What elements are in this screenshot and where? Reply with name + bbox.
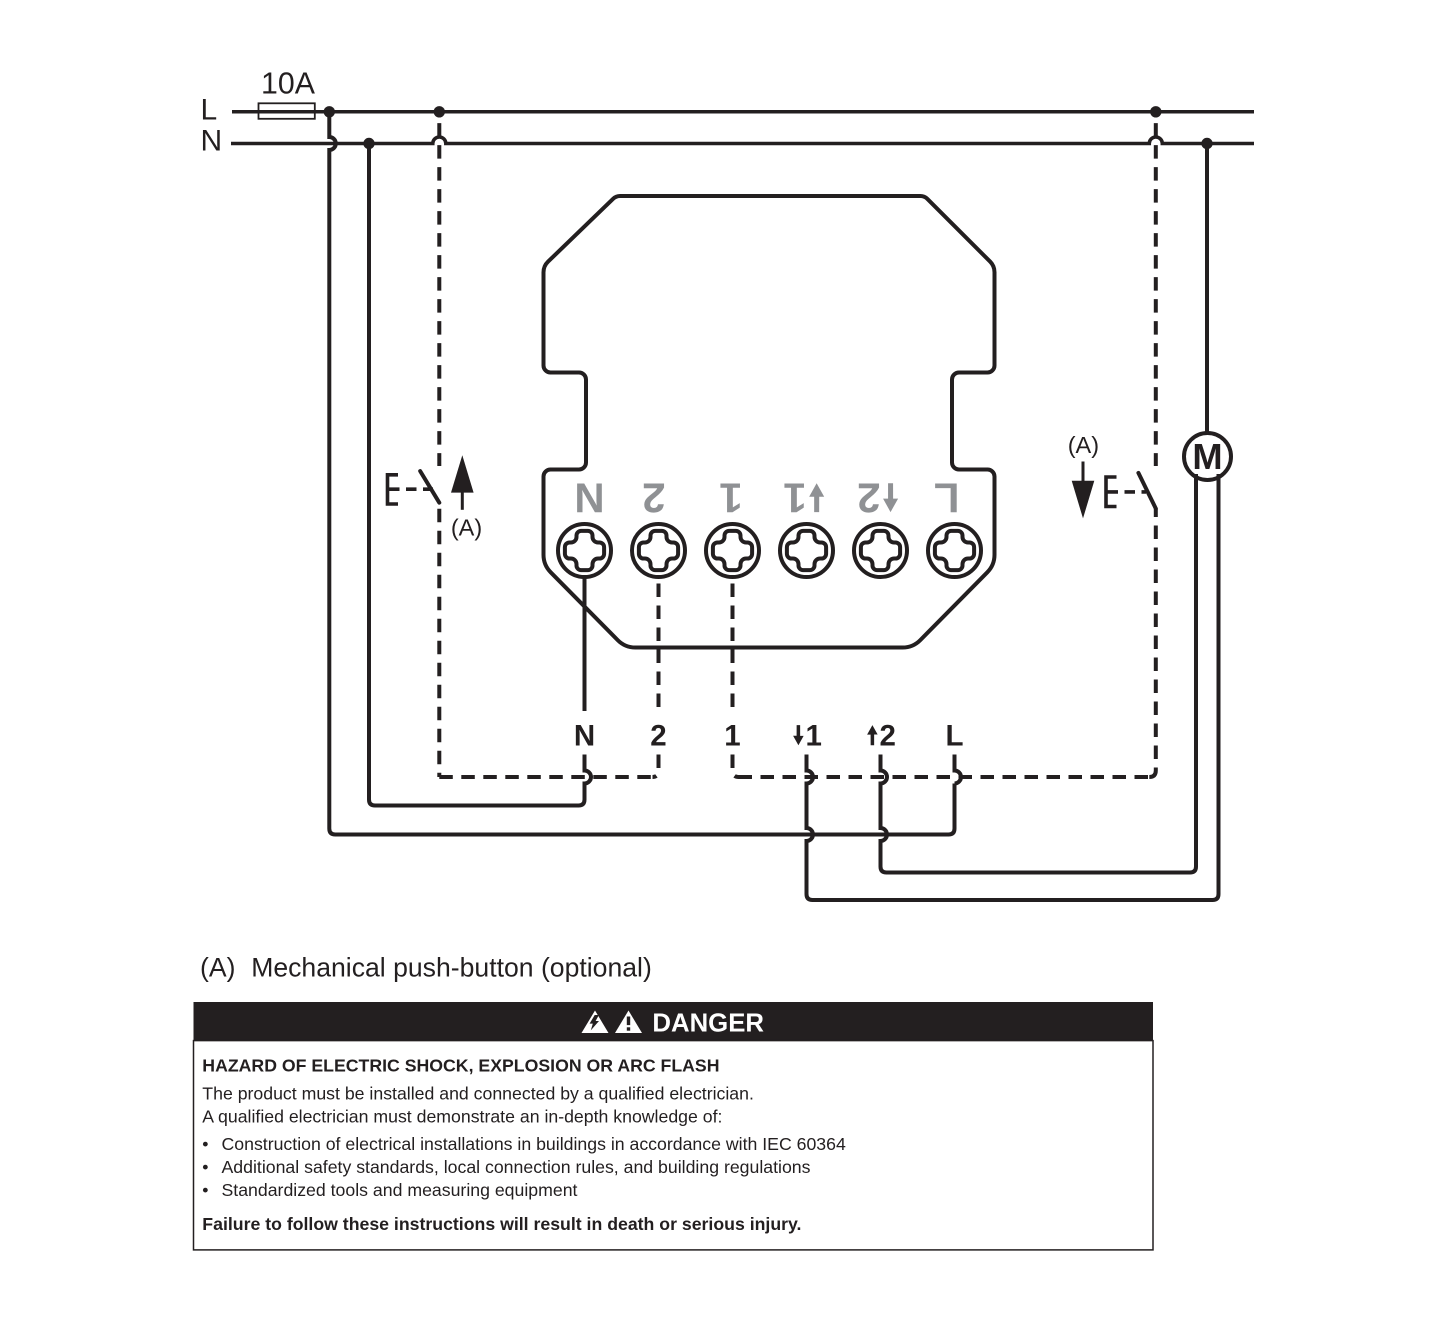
wire dashed drop from L to right push-button xyxy=(1154,112,1158,466)
label terminal L (gray, rotated) xyxy=(934,474,960,521)
push-button A left: actuator xyxy=(388,475,434,504)
wire dashed drop from L to left push-button xyxy=(437,112,441,466)
svg-text:L: L xyxy=(934,474,960,521)
svg-text:1: 1 xyxy=(783,474,806,521)
terminal screw u2 xyxy=(854,524,907,577)
wire L rail xyxy=(232,110,1254,114)
svg-text:L: L xyxy=(201,93,218,126)
terminal screw d1 xyxy=(780,524,833,577)
svg-text:(A): (A) xyxy=(1068,432,1099,458)
svg-text:N: N xyxy=(201,125,223,158)
svg-text:M: M xyxy=(1192,436,1222,477)
svg-text:•: • xyxy=(202,1157,208,1177)
junction on L rail x=439 xyxy=(434,106,445,117)
svg-text:2: 2 xyxy=(642,474,665,521)
junction on N rail x=369 xyxy=(363,138,374,149)
svg-text:N: N xyxy=(574,474,604,521)
arrow down (lower direction) xyxy=(1082,462,1085,484)
junction on L rail x=1156 xyxy=(1150,106,1161,117)
danger box body frame xyxy=(194,1041,1154,1250)
svg-text:Standardized tools and measuri: Standardized tools and measuring equipme… xyxy=(222,1180,578,1200)
danger box header xyxy=(194,1002,1154,1041)
terminal screw N xyxy=(558,524,611,577)
fuse 10A xyxy=(259,103,315,119)
push-button A left: switch contact blade xyxy=(420,471,439,503)
label wire d1 xyxy=(793,719,822,752)
svg-text:2: 2 xyxy=(857,474,880,521)
label wire L xyxy=(945,719,963,752)
svg-text:Additional safety standards, l: Additional safety standards, local conne… xyxy=(222,1157,811,1177)
wire terminal 2 dashed upper xyxy=(657,578,661,712)
terminal screw 1 xyxy=(706,524,759,577)
label wire 1 xyxy=(724,719,740,752)
svg-text:L: L xyxy=(945,719,963,752)
terminal screw L xyxy=(928,524,981,577)
push-button A right: switch contact blade xyxy=(1138,473,1155,509)
junction on L rail x=329 xyxy=(324,106,335,117)
label terminal 2 (gray, rotated) xyxy=(642,474,665,521)
label terminal 1 (gray, rotated) xyxy=(719,474,742,521)
svg-text:2: 2 xyxy=(880,719,896,752)
label terminal u2 (gray, rotated) xyxy=(857,474,898,521)
wire terminal N upper segment xyxy=(583,578,587,712)
wire terminal u2 down to motor lead left xyxy=(881,474,1197,873)
push-button A right: actuator xyxy=(1106,477,1146,507)
device module outline xyxy=(543,196,994,648)
wire from N rail drop x=369 to terminal N xyxy=(369,144,591,806)
svg-text:•: • xyxy=(202,1180,208,1200)
label wire 2 xyxy=(650,719,666,752)
svg-text:Mechanical push-button (option: Mechanical push-button (optional) xyxy=(251,953,652,983)
wire terminal 1 dashed to right push-button xyxy=(733,755,739,778)
terminal screw 2 xyxy=(632,524,685,577)
svg-text:The product must be installed: The product must be installed and connec… xyxy=(202,1084,754,1104)
svg-text:(A): (A) xyxy=(451,514,482,540)
wire N rail (hops over dashed verticals) xyxy=(231,137,1254,144)
svg-text:N: N xyxy=(574,719,595,752)
wire from N rail to motor xyxy=(1205,144,1209,434)
label terminal d1 (gray, rotated) xyxy=(783,474,824,521)
svg-text:10A: 10A xyxy=(261,68,316,101)
svg-text:•: • xyxy=(202,1134,208,1154)
svg-text:HAZARD OF ELECTRIC SHOCK, EXPL: HAZARD OF ELECTRIC SHOCK, EXPLOSION OR A… xyxy=(202,1055,719,1075)
warning triangle (electric flash) xyxy=(582,1011,609,1034)
svg-text:1: 1 xyxy=(724,719,740,752)
wire terminal L down (hops dashed), joins lower L horizontal xyxy=(955,755,962,784)
svg-text:A qualified electrician must d: A qualified electrician must demonstrate… xyxy=(202,1106,722,1126)
label wire N xyxy=(574,719,595,752)
warning triangle (exclamation) xyxy=(615,1011,642,1034)
wire terminal 2 dashed to left push-button xyxy=(653,755,659,778)
svg-text:DANGER: DANGER xyxy=(652,1010,764,1038)
wire terminal d1 down to motor lead right xyxy=(807,474,1219,900)
svg-text:Failure to follow these instru: Failure to follow these instructions wil… xyxy=(202,1214,801,1234)
svg-text:1: 1 xyxy=(719,474,742,521)
svg-text:2: 2 xyxy=(650,719,666,752)
arrow up (raise direction) xyxy=(461,488,464,510)
wire from L rail down-left drop x=329 (hops N rail) xyxy=(329,112,954,835)
junction on N rail x=1207 xyxy=(1201,138,1212,149)
svg-text:(A): (A) xyxy=(200,953,235,983)
svg-text:1: 1 xyxy=(806,719,822,752)
wire terminal 1 dashed upper xyxy=(731,578,735,712)
motor M xyxy=(1184,433,1231,480)
svg-text:Construction of electrical ins: Construction of electrical installations… xyxy=(222,1134,846,1154)
label terminal N (gray, rotated) xyxy=(574,474,604,521)
label wire u2 xyxy=(867,719,896,752)
